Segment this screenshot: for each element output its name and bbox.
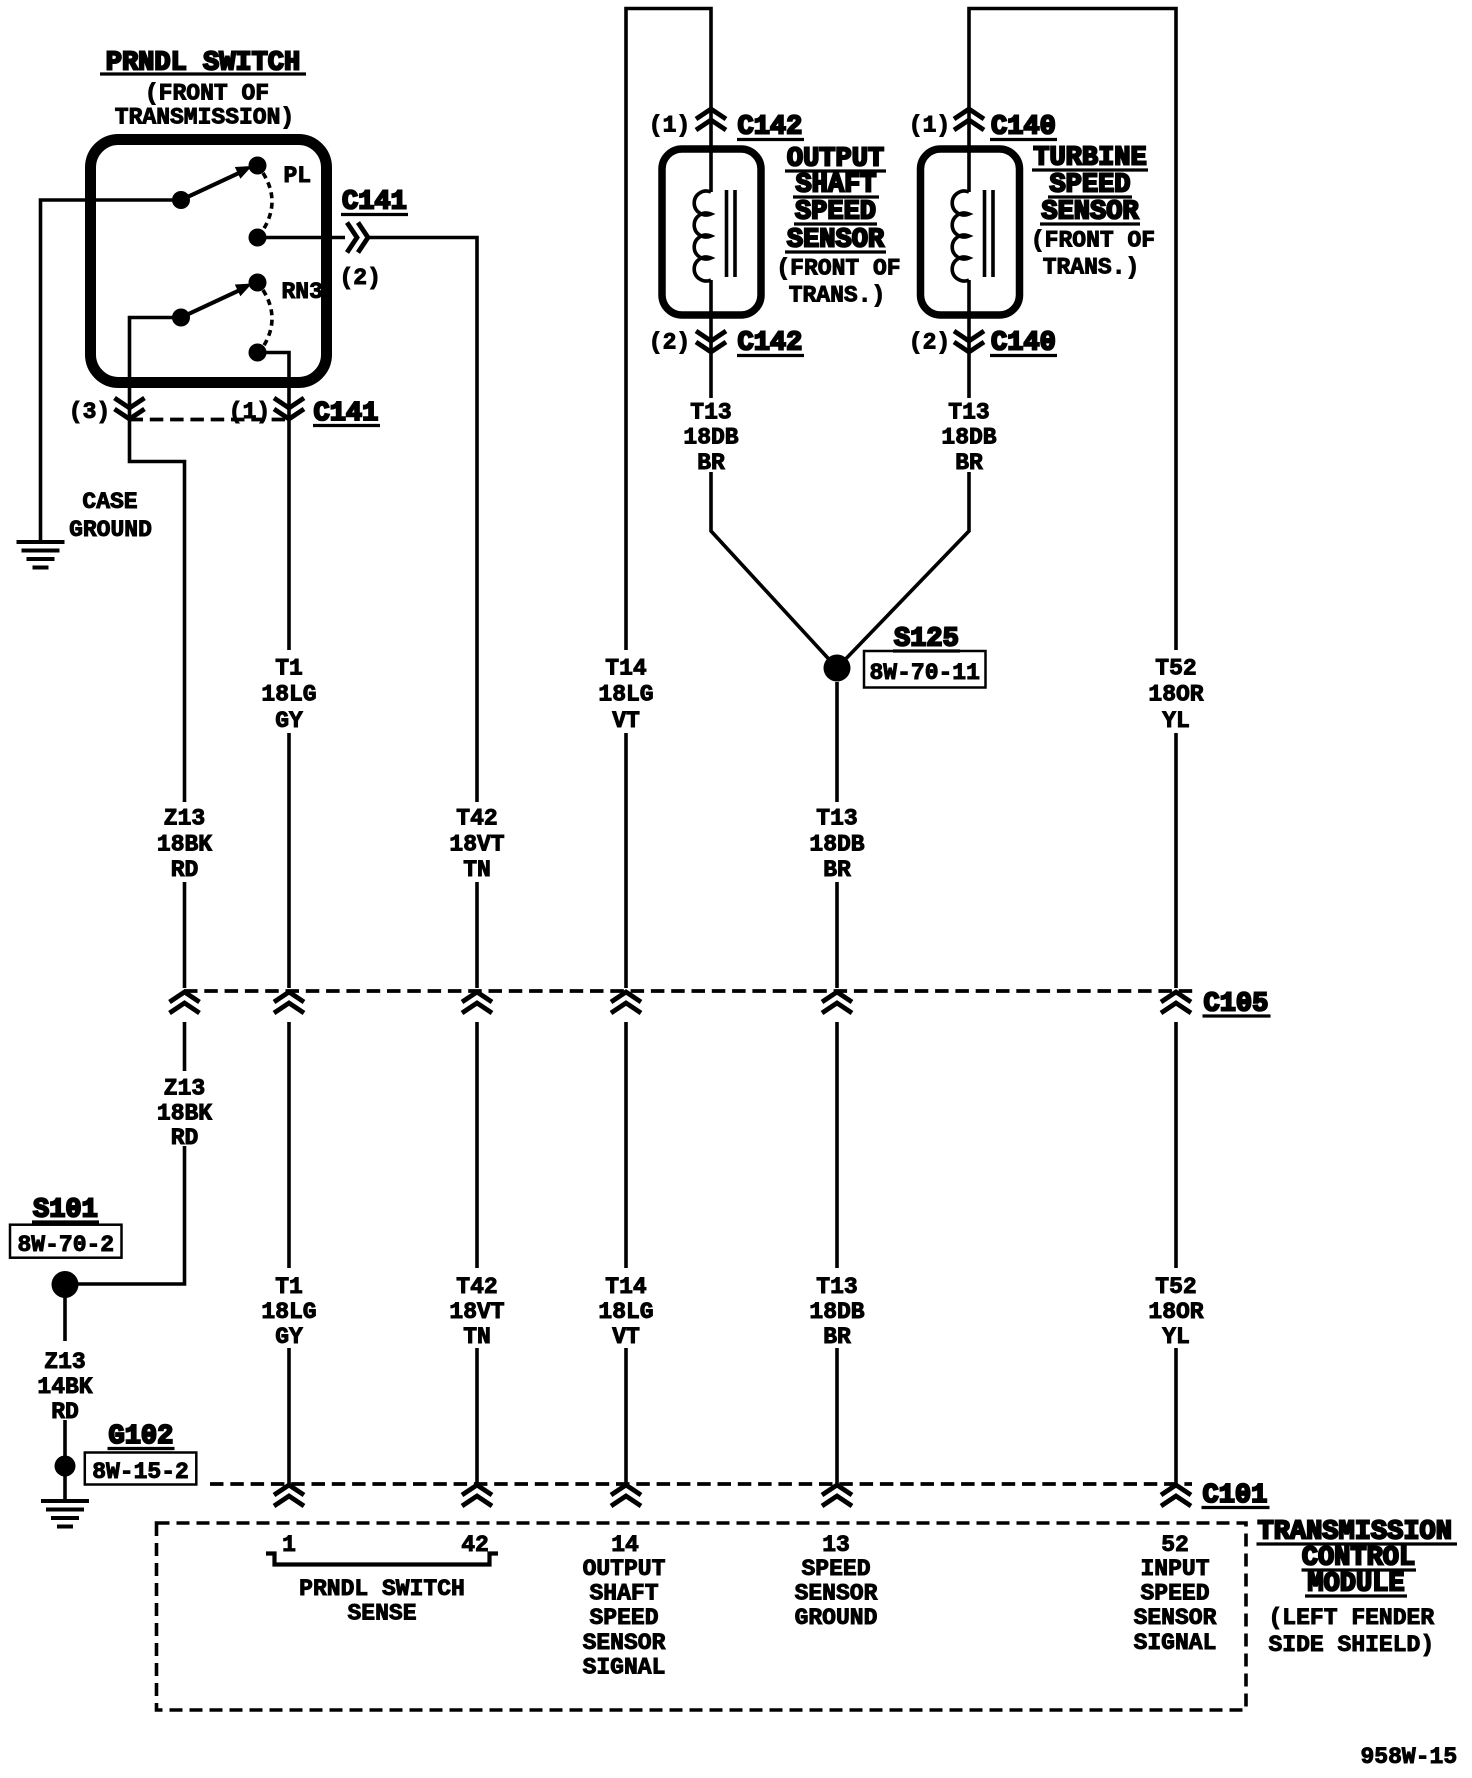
svg-text:(1): (1) xyxy=(649,113,690,139)
transmission control module label xyxy=(1257,1518,1458,1659)
wire T14 column: top run over to output sensor xyxy=(626,9,711,989)
reference box 8W-70-2 xyxy=(10,1225,122,1258)
svg-text:T52: T52 xyxy=(1155,656,1196,682)
output shaft speed sensor box xyxy=(662,149,761,315)
connector C142 label top xyxy=(737,113,804,143)
wire turbine sensor pin2 down xyxy=(967,280,971,398)
C105 chevron T52 xyxy=(1161,992,1191,1013)
svg-text:BR: BR xyxy=(823,1324,851,1350)
svg-text:18BK: 18BK xyxy=(157,832,212,858)
C105 chevron Z13 xyxy=(170,992,200,1013)
wire Z13 from C141 pin3 down to corner and Z13 column xyxy=(130,420,185,803)
wire T1 column upper xyxy=(287,420,291,989)
connector C142 pin1 chevron xyxy=(696,109,726,130)
wire label Z13 (upper) xyxy=(157,806,212,884)
svg-text:INPUT: INPUT xyxy=(1140,1556,1209,1582)
svg-text:14: 14 xyxy=(611,1532,639,1558)
PRNDL switch title xyxy=(100,49,306,131)
svg-text:T1: T1 xyxy=(275,1274,303,1300)
splice S125 label xyxy=(893,625,960,655)
inductor core (output sensor) xyxy=(727,190,736,277)
svg-text:SENSOR: SENSOR xyxy=(1134,1605,1217,1631)
svg-text:T1: T1 xyxy=(275,656,303,682)
svg-text:TN: TN xyxy=(463,857,491,883)
reference box 8W-70-11 xyxy=(864,651,986,688)
svg-text:RD: RD xyxy=(171,857,199,883)
svg-text:YL: YL xyxy=(1162,1324,1190,1350)
svg-text:TRANS.): TRANS.) xyxy=(1043,255,1140,281)
svg-text:RD: RD xyxy=(171,1125,199,1151)
svg-text:18DB: 18DB xyxy=(809,832,864,858)
svg-text:18DB: 18DB xyxy=(683,425,738,451)
C105 chevron T14 xyxy=(611,992,641,1013)
wire label T13 output sensor xyxy=(683,400,738,477)
wire Z13 from S101 down xyxy=(63,1285,67,1467)
svg-text:OUTPUT: OUTPUT xyxy=(583,1556,666,1582)
svg-text:PRNDL SWITCH: PRNDL SWITCH xyxy=(299,1576,465,1602)
svg-text:(FRONT OF: (FRONT OF xyxy=(776,256,900,282)
inductor coil (turbine sensor) xyxy=(952,191,969,281)
wire turbine sensor pin2 diagonal to S125 xyxy=(837,472,969,668)
wire label Z13 14BK RD xyxy=(37,1349,92,1425)
turbine speed sensor title xyxy=(1031,144,1155,281)
svg-text:VT: VT xyxy=(612,1324,640,1350)
svg-text:18OR: 18OR xyxy=(1148,1299,1203,1325)
reference box 8W-15-2 xyxy=(85,1453,197,1486)
svg-text:(2): (2) xyxy=(340,265,381,291)
svg-text:18BK: 18BK xyxy=(157,1101,212,1127)
ground G102 label xyxy=(108,1422,175,1452)
C105 chevron T42 xyxy=(462,992,492,1013)
splice S101 label xyxy=(32,1196,99,1226)
svg-text:(2): (2) xyxy=(649,330,690,356)
svg-text:8W-70-2: 8W-70-2 xyxy=(17,1232,114,1258)
svg-text:BR: BR xyxy=(823,857,851,883)
svg-text:SPEED: SPEED xyxy=(1140,1581,1209,1607)
svg-text:SIGNAL: SIGNAL xyxy=(583,1655,666,1681)
svg-text:T42: T42 xyxy=(456,1274,497,1300)
wire label T52 (lower) xyxy=(1148,1274,1203,1350)
C101 chevron T13 xyxy=(822,1485,852,1506)
wire T42 to C105 xyxy=(475,882,479,988)
wire T14 below C105 xyxy=(624,1022,628,1484)
svg-text:8W-15-2: 8W-15-2 xyxy=(92,1459,189,1485)
transmission control module dashed box xyxy=(157,1523,1247,1710)
svg-text:TRANSMISSION): TRANSMISSION) xyxy=(115,105,294,131)
svg-text:Z13: Z13 xyxy=(164,1076,205,1102)
svg-text:T13: T13 xyxy=(816,806,857,832)
C105 chevron T13 xyxy=(822,992,852,1013)
splice S101 xyxy=(52,1271,79,1298)
svg-text:18OR: 18OR xyxy=(1148,682,1203,708)
ground (case ground symbol) xyxy=(17,542,65,568)
svg-text:(1): (1) xyxy=(909,113,950,139)
C101 chevron T14 xyxy=(611,1485,641,1506)
svg-text:T13: T13 xyxy=(948,400,989,426)
svg-text:(LEFT FENDER: (LEFT FENDER xyxy=(1269,1605,1435,1631)
svg-text:GY: GY xyxy=(275,708,303,734)
wire T13 below C105 xyxy=(835,1022,839,1484)
wire label Z13 (lower) xyxy=(157,1076,212,1152)
wire output sensor pin2 diagonal to S125 xyxy=(711,472,837,668)
svg-text:T14: T14 xyxy=(605,656,647,682)
svg-text:CASE: CASE xyxy=(82,489,137,515)
connector C142 label bottom xyxy=(737,329,804,359)
svg-text:Z13: Z13 xyxy=(164,806,205,832)
svg-text:Z13: Z13 xyxy=(44,1349,85,1375)
wire label T1 (upper) xyxy=(261,656,316,735)
svg-text:VT: VT xyxy=(612,708,640,734)
svg-text:T13: T13 xyxy=(690,400,731,426)
svg-text:18DB: 18DB xyxy=(809,1299,864,1325)
svg-text:T42: T42 xyxy=(456,806,497,832)
svg-text:GROUND: GROUND xyxy=(69,517,152,543)
svg-text:SPEED: SPEED xyxy=(801,1556,870,1582)
svg-text:T14: T14 xyxy=(605,1274,647,1300)
svg-text:18LG: 18LG xyxy=(261,682,316,708)
connector C141 dashed line xyxy=(130,418,290,422)
inductor coil (output sensor) xyxy=(694,191,711,281)
svg-text:14BK: 14BK xyxy=(37,1374,92,1400)
splice S125 xyxy=(824,655,851,682)
connector C140 label top xyxy=(990,113,1057,143)
svg-text:18VT: 18VT xyxy=(449,832,504,858)
svg-text:SPEED: SPEED xyxy=(589,1605,658,1631)
wire RN3 common to pin3 xyxy=(130,318,182,420)
C101 chevron T1 xyxy=(274,1485,304,1506)
connector C141 label bottom xyxy=(313,399,380,429)
svg-text:SENSOR: SENSOR xyxy=(795,1581,878,1607)
svg-text:(FRONT OF: (FRONT OF xyxy=(1031,228,1155,254)
wire Z13 to C105 xyxy=(183,882,187,988)
wire T52 below C105 xyxy=(1174,1022,1178,1484)
connector C105 dashed line xyxy=(184,989,1196,993)
inductor core (turbine sensor) xyxy=(985,190,994,277)
wire T42 below C105 xyxy=(475,1022,479,1484)
svg-text:T52: T52 xyxy=(1155,1274,1196,1300)
wire T52 column: top run over from turbine sensor xyxy=(969,9,1176,989)
wire output sensor pin2 down xyxy=(709,280,713,398)
C101 chevron T42 xyxy=(462,1485,492,1506)
svg-text:SENSOR: SENSOR xyxy=(583,1630,666,1656)
switch PL xyxy=(172,157,272,247)
pin 13 function label xyxy=(795,1556,878,1631)
wire G102 to ground xyxy=(63,1466,67,1500)
svg-text:SENSE: SENSE xyxy=(347,1601,416,1627)
svg-text:18LG: 18LG xyxy=(261,1299,316,1325)
svg-text:958W-15: 958W-15 xyxy=(1361,1744,1458,1770)
svg-text:SIGNAL: SIGNAL xyxy=(1134,1630,1217,1656)
wire Z13 below C105 xyxy=(78,1022,185,1284)
wire PL common to case ground xyxy=(41,200,182,541)
wire T13 below S125 xyxy=(835,682,839,988)
wire label T42 (lower) xyxy=(449,1274,504,1350)
svg-text:(3): (3) xyxy=(69,399,110,425)
svg-text:1: 1 xyxy=(282,1532,296,1558)
svg-text:(1): (1) xyxy=(229,399,270,425)
svg-text:PL: PL xyxy=(284,163,312,189)
connector C141 label top xyxy=(341,188,408,218)
connector C142 pin2 chevron xyxy=(696,331,726,352)
svg-text:SIDE SHIELD): SIDE SHIELD) xyxy=(1269,1632,1435,1658)
svg-text:TN: TN xyxy=(463,1324,491,1350)
wire label T42 (upper) xyxy=(449,806,504,884)
svg-text:RD: RD xyxy=(51,1399,79,1425)
connector C140 pin2 chevron xyxy=(954,331,984,352)
svg-text:13: 13 xyxy=(822,1532,850,1558)
wire RN3 pin1 out xyxy=(258,353,290,420)
wire label T13 turbine sensor xyxy=(941,400,996,477)
svg-text:SHAFT: SHAFT xyxy=(589,1581,658,1607)
svg-text:TRANS.): TRANS.) xyxy=(789,283,886,309)
svg-text:GROUND: GROUND xyxy=(795,1605,878,1631)
pin 52 function label xyxy=(1134,1556,1217,1656)
switch RN3 xyxy=(172,274,272,362)
svg-text:(FRONT OF: (FRONT OF xyxy=(145,81,269,107)
svg-text:42: 42 xyxy=(461,1532,489,1558)
PRNDL SWITCH SENSE label xyxy=(299,1576,465,1627)
connector C140 pin1 chevron xyxy=(954,109,984,130)
wire label T14 (lower) xyxy=(598,1274,653,1350)
wire label T13 (below S125) xyxy=(809,806,864,884)
wire T1 below C105 xyxy=(287,1022,291,1484)
ground symbol G102 xyxy=(41,1501,89,1527)
wire label T1 (lower) xyxy=(261,1274,316,1350)
node G102 xyxy=(55,1456,76,1477)
output shaft speed sensor title xyxy=(776,145,900,309)
wire label T52 (upper) xyxy=(1148,656,1203,735)
wire PL pin2 out to C141 and down (T42 column upper) xyxy=(258,238,478,803)
svg-text:YL: YL xyxy=(1162,708,1190,734)
C101 chevron T52 xyxy=(1161,1485,1191,1506)
connector C140 label bottom xyxy=(990,329,1057,359)
wire label T13 (lower) xyxy=(809,1274,864,1350)
connector C105 label xyxy=(1203,990,1271,1020)
connector C141 pin 1 chevron xyxy=(274,398,304,419)
svg-text:RN3: RN3 xyxy=(282,279,323,305)
svg-text:GY: GY xyxy=(275,1324,303,1350)
turbine speed sensor box xyxy=(921,149,1020,315)
connector C141 pin 3 chevron xyxy=(115,398,145,419)
svg-text:8W-70-11: 8W-70-11 xyxy=(869,660,979,686)
svg-text:18LG: 18LG xyxy=(598,682,653,708)
CASE GROUND label xyxy=(69,489,152,543)
svg-text:18DB: 18DB xyxy=(941,425,996,451)
connector C141 pin 2 chevron xyxy=(347,223,368,253)
PRNDL switch box xyxy=(91,140,327,383)
bracket pins 1-42 xyxy=(266,1554,498,1565)
C105 chevron T1 xyxy=(274,992,304,1013)
svg-text:T13: T13 xyxy=(816,1274,857,1300)
wire label T14 (upper) xyxy=(598,656,653,735)
svg-text:52: 52 xyxy=(1161,1532,1189,1558)
connector C101 dashed line xyxy=(210,1482,1192,1486)
pin 14 function label xyxy=(583,1556,666,1681)
svg-text:18VT: 18VT xyxy=(449,1299,504,1325)
svg-text:18LG: 18LG xyxy=(598,1299,653,1325)
connector C101 label xyxy=(1202,1481,1270,1511)
svg-text:(2): (2) xyxy=(909,330,950,356)
